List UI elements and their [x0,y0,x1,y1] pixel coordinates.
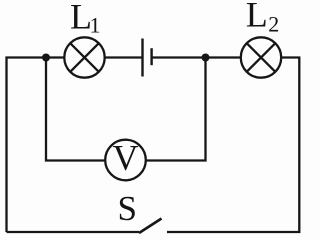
wire bottom-left from switch pivot to left corner [7,231,140,233]
lamp L2 [241,37,281,77]
wire L1 to battery [105,56,143,58]
lamp L1 [64,37,104,77]
voltmeter U1 [105,140,146,181]
wire left side: left vertical and top-left horizontal to node A and lamp L1 [7,58,65,233]
node A junction dot [42,54,50,62]
wire L2 to top-right corner and down right side [167,58,299,233]
wire node A down and across to voltmeter [46,58,105,161]
svg-text:S: S [118,189,137,228]
node B junction dot [202,54,210,62]
battery cell [143,39,152,77]
switch S blade [139,219,162,234]
svg-text:V: V [113,138,139,178]
wire voltmeter to node B up [146,58,206,161]
wire battery to node B and lamp L2 [152,56,241,58]
